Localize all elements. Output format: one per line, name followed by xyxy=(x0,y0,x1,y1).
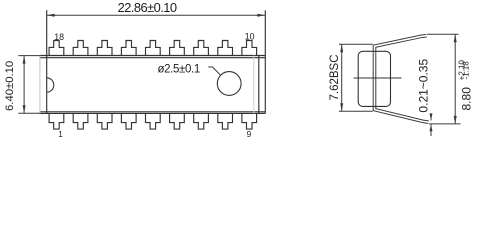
svg-text:0.21~0.35: 0.21~0.35 xyxy=(416,59,430,113)
package body outline (top view) xyxy=(40,10,265,113)
pin bottom 7 xyxy=(194,114,209,130)
dimension 8.80 witness + line xyxy=(427,34,461,124)
pin top 11 xyxy=(218,41,233,56)
hole circle xyxy=(217,72,241,96)
faint body left edge xyxy=(39,56,41,114)
pin bottom 8 xyxy=(218,114,233,130)
svg-text:ø2.5±0.1: ø2.5±0.1 xyxy=(157,64,200,76)
svg-text:22.86±0.10: 22.86±0.10 xyxy=(118,0,177,15)
svg-text:1: 1 xyxy=(58,129,63,139)
dimension 6.40 witness + line xyxy=(18,56,40,114)
svg-text:7.62BSC: 7.62BSC xyxy=(329,54,341,100)
pin top 14 xyxy=(146,41,161,56)
pin top 17 xyxy=(73,41,88,56)
pin bottom 1 xyxy=(49,114,64,130)
dimension 7.62 arrows xyxy=(340,44,343,111)
pin bottom 3 xyxy=(97,114,112,130)
end view body xyxy=(358,51,390,106)
pin top 15 xyxy=(121,41,136,56)
pin bottom 9 xyxy=(242,114,257,130)
pin top 18 xyxy=(49,41,64,56)
index notch xyxy=(47,78,54,92)
dimension 0.21 arrows xyxy=(430,113,433,131)
dimension 22.86 arrows xyxy=(47,14,266,17)
svg-text:9: 9 xyxy=(247,129,252,139)
dimension 22.86 line xyxy=(47,14,266,16)
dimension 8.80 arrows xyxy=(454,34,457,124)
pin top 10 xyxy=(242,41,257,56)
svg-text:-1.18: -1.18 xyxy=(462,61,471,80)
pin bottom 4 xyxy=(121,114,136,130)
pin bottom 2 xyxy=(73,114,88,130)
svg-text:10: 10 xyxy=(245,32,255,42)
dimension 7.62 witness + line xyxy=(339,44,373,111)
pin bottom 6 xyxy=(170,114,185,130)
dimension 6.40 arrows xyxy=(23,56,26,114)
svg-text:6.40±0.10: 6.40±0.10 xyxy=(4,61,16,111)
leader line xyxy=(208,67,220,75)
parting line xyxy=(354,77,402,79)
lead profile xyxy=(375,36,429,123)
dimension 0.21 lines xyxy=(430,114,432,136)
pin bottom 5 xyxy=(146,114,161,130)
pin top 12 xyxy=(194,41,209,56)
pins xyxy=(49,41,257,130)
svg-text:8.80: 8.80 xyxy=(459,87,473,111)
svg-text:18: 18 xyxy=(54,32,64,42)
faint inner right line xyxy=(253,56,255,114)
pin top 13 xyxy=(170,41,185,56)
pin top 16 xyxy=(97,41,112,56)
